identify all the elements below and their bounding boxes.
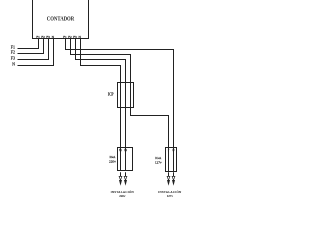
node label N (12, 61, 15, 66)
svg-text:ICP: ICP (108, 93, 114, 97)
svg-text:F2: F2 (68, 35, 72, 39)
svg-text:220v: 220v (109, 160, 116, 164)
wire phase to ICP middle (76, 39, 126, 171)
node label F2 (11, 49, 15, 54)
svg-text:127v: 127v (167, 194, 174, 198)
svg-text:127v: 127v (155, 161, 162, 165)
wire F2 left (18, 39, 44, 54)
wire F1 left (18, 39, 39, 49)
svg-text:F2: F2 (41, 35, 45, 39)
label ICP (108, 93, 114, 97)
wire phase to ICP left (81, 39, 121, 171)
svg-text:N: N (12, 61, 15, 66)
wire ICP to IGA 127v (131, 108, 169, 148)
arrow installation 127v N (172, 172, 175, 186)
svg-text:F3: F3 (73, 35, 77, 39)
wire neutral to IGA 127v (66, 39, 174, 148)
IGA 220v box (118, 148, 133, 171)
wire IGA 127v through N (173, 148, 175, 172)
IGA 127v box (166, 148, 177, 172)
arrow installation 127v F (167, 172, 170, 186)
label CONTADOR (47, 16, 74, 23)
svg-text:F2: F2 (11, 49, 15, 54)
label INSTALACION 220v (111, 189, 135, 194)
svg-text:IGA: IGA (109, 155, 116, 159)
svg-text:CONTADOR: CONTADOR (47, 16, 74, 23)
svg-text:INSTALACIÓN: INSTALACIÓN (111, 189, 135, 194)
meter CONTADOR box (33, 0, 89, 39)
svg-text:F1: F1 (11, 44, 15, 49)
terminal labels left group F1 F2 F3 N (36, 35, 54, 39)
wire phase to ICP right (71, 39, 131, 108)
label IGA 220v (109, 155, 116, 159)
label IGA 127v (155, 156, 162, 160)
svg-text:F1: F1 (36, 35, 40, 39)
ICP box (118, 83, 134, 108)
arrow installation 220v N (124, 172, 127, 186)
svg-text:N: N (173, 149, 175, 152)
svg-text:220v: 220v (119, 194, 126, 198)
label INSTALACION 127v (158, 189, 182, 194)
wire F3 left (18, 39, 49, 60)
svg-text:INSTALACIÓN: INSTALACIÓN (158, 189, 182, 194)
node label F3 (11, 55, 15, 60)
svg-text:F3: F3 (11, 55, 15, 60)
arrow installation 220v F (119, 172, 122, 186)
svg-text:F1: F1 (63, 35, 67, 39)
svg-text:IGA: IGA (155, 156, 162, 160)
IGA 127v box terminal labels (168, 149, 175, 152)
IGA 220v box terminal labels (119, 149, 128, 152)
wire IGA 127v through F (168, 148, 170, 172)
wire N left (18, 39, 54, 66)
svg-text:F3: F3 (46, 35, 50, 39)
node label F1 (11, 44, 15, 49)
terminal labels right group F1 F2 F3 N (63, 35, 81, 39)
